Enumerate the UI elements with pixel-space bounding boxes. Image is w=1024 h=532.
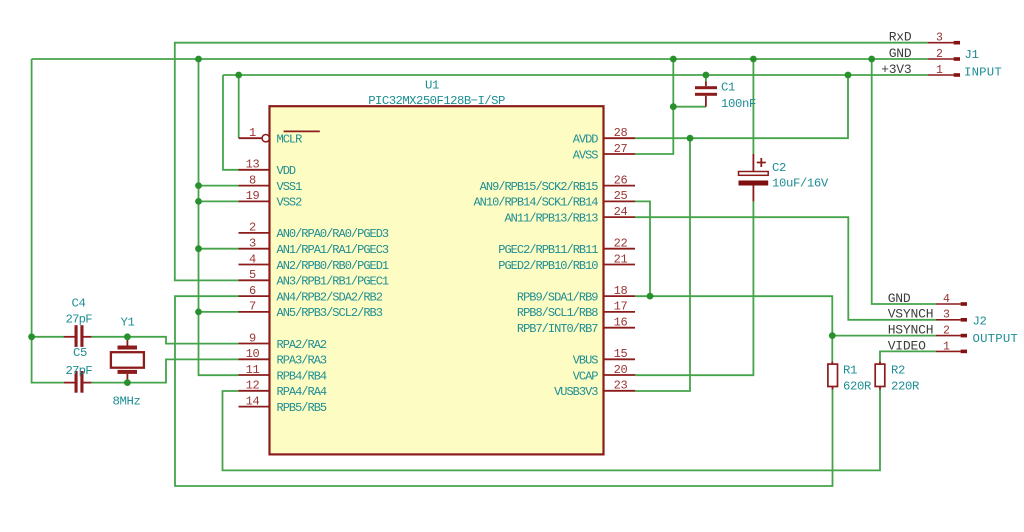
svg-text:6: 6	[249, 284, 256, 298]
connector J2 pin 2 endcap	[961, 334, 967, 338]
pin 8 line	[239, 185, 271, 187]
wire pin25 over to pin18 vertical	[635, 201, 650, 296]
pin 28 line	[603, 137, 635, 139]
svg-text:AN2/RPB0/RB0/PGED1: AN2/RPB0/RB0/PGED1	[277, 259, 389, 273]
crystal Y1 body	[111, 352, 144, 368]
MCLR overbar	[284, 130, 320, 132]
connector J1 pin 2 endcap	[954, 57, 960, 61]
svg-text:21: 21	[614, 252, 628, 266]
capacitor C5 right plate	[80, 371, 83, 393]
pin 17 line	[603, 311, 635, 313]
svg-text:VDD: VDD	[277, 164, 296, 178]
connector J2 pin 1 endcap	[961, 350, 967, 354]
pin 27 line	[603, 153, 635, 155]
pin 4 line	[239, 264, 271, 266]
junction crystal top node	[124, 333, 131, 340]
wire +3V3 drop to MCLR pin1	[238, 75, 240, 138]
pin 21 line	[603, 264, 635, 266]
connector J2 pin 2 line	[936, 335, 961, 337]
wire pin18 to R1 top / HSYNCH	[635, 296, 832, 335]
pin 18 line	[603, 295, 635, 297]
junction GND rail / J2 GND vertical	[868, 56, 875, 63]
junction GND rail / C2 top	[750, 56, 757, 63]
resistor R1 bottom stub	[832, 387, 834, 390]
junction +3V3 rail / C1 top	[703, 72, 710, 79]
pin 22 line	[603, 248, 635, 250]
svg-text:C2: C2	[772, 161, 786, 175]
connector J2 pin 4 endcap	[961, 302, 967, 306]
svg-text:8MHz: 8MHz	[113, 395, 141, 409]
connector J1 pin 1 endcap	[954, 73, 960, 77]
svg-text:5: 5	[249, 268, 256, 282]
svg-text:+3V3: +3V3	[881, 62, 911, 77]
svg-text:8: 8	[249, 173, 256, 187]
wire C5 row from caps through crystal bottom zigzag to pin 10	[91, 359, 239, 382]
svg-text:U1: U1	[425, 79, 439, 93]
svg-text:13: 13	[246, 158, 260, 172]
svg-text:AN3/RPB1/RB1/PGEC1: AN3/RPB1/RB1/PGEC1	[277, 275, 389, 289]
svg-text:11: 11	[246, 363, 260, 377]
junction GND drop / C4 left	[28, 333, 35, 340]
wire GND rail top	[32, 58, 928, 60]
pin 13 line	[239, 169, 271, 171]
svg-text:Y1: Y1	[121, 316, 135, 330]
svg-text:J1: J1	[965, 48, 979, 62]
capacitor C4 left plate	[75, 325, 78, 347]
svg-text:AN10/RPB14/SCK1/RB14: AN10/RPB14/SCK1/RB14	[473, 196, 598, 210]
svg-text:620R: 620R	[843, 380, 872, 394]
wire pin12 down-around to R2 bottom	[223, 389, 881, 470]
wire R1 top stub	[831, 336, 833, 362]
svg-text:22: 22	[614, 237, 628, 251]
svg-text:VSS1: VSS1	[277, 180, 303, 194]
svg-text:VSYNCH: VSYNCH	[888, 307, 934, 322]
svg-text:1: 1	[249, 126, 256, 140]
svg-text:100nF: 100nF	[721, 97, 756, 111]
wire AVDD pin28 to +3V3 drop at x848	[635, 75, 848, 138]
pin 11 line	[239, 374, 271, 376]
svg-text:PGED2/RPB10/RB10: PGED2/RPB10/RB10	[498, 259, 598, 273]
resistor R1 top stub	[831, 362, 833, 365]
svg-text:10: 10	[246, 347, 260, 361]
junction pin7	[195, 309, 202, 316]
wire C1 top stub to +3V3 rail	[705, 75, 707, 82]
wire pin7 to GND branch	[199, 311, 239, 313]
connector J2 pin 3 endcap	[961, 318, 967, 322]
svg-text:R1: R1	[843, 364, 857, 378]
connector J1 pin 1 line	[928, 74, 954, 76]
svg-text:27: 27	[614, 142, 628, 156]
svg-text:HSYNCH: HSYNCH	[888, 323, 934, 338]
capacitor C5 left lead	[64, 382, 75, 384]
connector J2 pin 3 line	[936, 319, 961, 321]
svg-text:VCAP: VCAP	[573, 369, 599, 383]
capacitor C4 right plate	[80, 325, 83, 347]
svg-text:3: 3	[936, 32, 943, 45]
wire pin24 to J2 VSYNCH	[635, 217, 936, 320]
wire VSS1 pin8	[199, 185, 239, 187]
svg-text:AN11/RPB13/RB13: AN11/RPB13/RB13	[504, 211, 598, 225]
junction crystal bottom node	[124, 379, 131, 386]
svg-text:4: 4	[249, 252, 256, 266]
connector J2 pin 4 line	[936, 303, 961, 305]
svg-text:PGEC2/RPB11/RB11: PGEC2/RPB11/RB11	[498, 243, 598, 257]
svg-text:7: 7	[249, 300, 256, 314]
pin 5 line	[239, 279, 271, 281]
svg-text:VSS2: VSS2	[277, 196, 303, 210]
crystal Y1 bottom lead	[126, 374, 128, 383]
junction VSS1 pin8	[195, 182, 202, 189]
pin 12 line	[239, 390, 271, 392]
capacitor C1 top plate	[695, 86, 717, 89]
svg-text:26: 26	[614, 173, 628, 187]
svg-text:AVSS: AVSS	[573, 148, 599, 162]
svg-text:24: 24	[614, 205, 628, 219]
pin 3 line	[239, 248, 271, 250]
pin 1 MCLR line with inverting bubble	[239, 137, 262, 139]
capacitor C2 bottom lead	[752, 186, 754, 202]
svg-text:J2: J2	[973, 315, 987, 329]
pin 26 line	[603, 185, 635, 187]
resistor R1 body	[828, 364, 838, 386]
resistor R2 top stub	[879, 362, 881, 365]
capacitor C4 left lead	[64, 336, 75, 338]
svg-text:10uF/16V: 10uF/16V	[772, 176, 829, 190]
svg-text:AN1/RPA1/RA1/PGEC3: AN1/RPA1/RA1/PGEC3	[277, 243, 389, 257]
wire VSS2 pin19	[199, 200, 239, 202]
svg-text:INPUT: INPUT	[964, 66, 1002, 80]
svg-text:27pF: 27pF	[66, 364, 93, 378]
svg-text:RPB7/INT0/RB7: RPB7/INT0/RB7	[517, 322, 598, 336]
svg-text:14: 14	[246, 394, 260, 408]
crystal Y1 top lead	[126, 337, 128, 346]
wire HSYNCH from R1 top junction to J2	[832, 335, 936, 337]
junction +3V3 rail / MCLR drop	[235, 72, 242, 79]
pin 20 line	[603, 374, 635, 376]
svg-text:RPB5/RB5: RPB5/RB5	[277, 401, 327, 415]
capacitor C5 right lead	[84, 382, 92, 384]
capacitor C2 top plate hollow	[739, 172, 769, 176]
svg-text:C1: C1	[721, 81, 735, 95]
wire VIDEO from R2 top to J2 pin1	[880, 351, 936, 361]
junction GND rail / C1-AVSS vertical	[670, 56, 677, 63]
capacitor C1 bottom lead	[705, 96, 707, 107]
pin 19 line	[239, 200, 271, 202]
svg-text:12: 12	[246, 379, 260, 393]
svg-text:220R: 220R	[891, 380, 920, 394]
svg-text:9: 9	[249, 331, 256, 345]
wire VUSB3V3 pin23 up to AVDD line	[635, 138, 690, 391]
pin 7 line	[239, 311, 271, 313]
svg-text:28: 28	[614, 126, 628, 140]
resistor R2 bottom stub	[879, 387, 881, 390]
svg-text:4: 4	[943, 293, 950, 306]
capacitor C4 right lead	[84, 336, 92, 338]
pin 25 line	[603, 200, 635, 202]
svg-text:PIC32MX250F128B−I/SP: PIC32MX250F128B−I/SP	[368, 94, 505, 108]
svg-text:3: 3	[943, 309, 950, 322]
svg-text:2: 2	[249, 221, 256, 235]
svg-text:AN4/RPB2/SDA2/RB2: AN4/RPB2/SDA2/RB2	[277, 290, 383, 304]
svg-text:RPB8/SCL1/RB8: RPB8/SCL1/RB8	[517, 306, 598, 320]
wire VCAP pin20 to C2 bottom	[635, 201, 753, 375]
wire C1 bottom horizontal	[673, 106, 706, 108]
wire C4 row from caps to crystal top and zigzag to pin 9	[91, 337, 239, 344]
svg-text:19: 19	[246, 189, 260, 203]
svg-text:2: 2	[943, 325, 950, 338]
svg-text:VBUS: VBUS	[573, 354, 599, 368]
svg-text:16: 16	[614, 316, 628, 330]
svg-text:OUTPUT: OUTPUT	[973, 332, 1018, 346]
svg-text:27pF: 27pF	[66, 313, 93, 327]
svg-text:VIDEO: VIDEO	[888, 338, 926, 353]
wire +3V3 rail top	[223, 74, 928, 76]
connector J1 pin 3 endcap	[954, 41, 960, 45]
wire GND branch vertical to VSS pins and pin3 pin7 pin11	[199, 59, 239, 375]
svg-text:RxD: RxD	[889, 30, 912, 45]
junction C1 bottom / GND vertical	[670, 103, 677, 110]
capacitor C1 bottom plate	[695, 93, 717, 96]
junction HSYNCH / R1 top	[829, 332, 836, 339]
pin 2 line	[239, 232, 271, 234]
svg-text:AN0/RPA0/RA0/PGED3: AN0/RPA0/RA0/PGED3	[277, 227, 389, 241]
svg-text:RPA4/RA4: RPA4/RA4	[277, 385, 327, 399]
svg-text:1: 1	[936, 64, 943, 77]
junction pin18 / pin25 vertical	[647, 293, 654, 300]
pin 15 line	[603, 358, 635, 360]
wire C4 left green segment	[32, 336, 65, 338]
wire pin3 to GND branch	[199, 248, 239, 250]
junction pin3	[195, 245, 202, 252]
svg-text:20: 20	[614, 363, 628, 377]
wire RxD rail from J1 pin3 down to IC pin5	[175, 43, 928, 281]
svg-text:RPB9/SDA1/RB9: RPB9/SDA1/RB9	[517, 290, 598, 304]
svg-text:RPA3/RA3: RPA3/RA3	[277, 354, 327, 368]
pin 14 line	[239, 406, 271, 408]
svg-text:2: 2	[936, 48, 943, 61]
pin 23 line	[603, 390, 635, 392]
wire AVSS pin27 to GND via C1 bottom vertical	[635, 59, 673, 154]
svg-text:1: 1	[943, 340, 950, 353]
junction +3V3 rail / AVDD drop	[845, 72, 852, 79]
wire pin6 down-around to R1 bottom	[175, 296, 833, 486]
capacitor C2 bottom plate solid	[739, 181, 769, 186]
svg-text:GND: GND	[888, 291, 911, 306]
svg-text:AN9/RPB15/SCK2/RB15: AN9/RPB15/SCK2/RB15	[480, 180, 599, 194]
svg-text:C4: C4	[72, 297, 86, 311]
svg-text:RPA2/RA2: RPA2/RA2	[277, 338, 327, 352]
pin 16 line	[603, 327, 635, 329]
connector J1 pin 2 line	[928, 58, 954, 60]
wire GND left drop to C4/C5	[32, 59, 64, 383]
svg-text:AVDD: AVDD	[573, 133, 599, 147]
svg-text:3: 3	[249, 237, 256, 251]
pin 9 line	[239, 343, 271, 345]
crystal Y1 bottom bar	[118, 370, 138, 374]
svg-text:GND: GND	[889, 46, 912, 61]
pin 6 line	[239, 295, 271, 297]
pin 24 line	[603, 216, 635, 218]
resistor R2 body	[875, 364, 885, 386]
svg-text:25: 25	[614, 189, 628, 203]
svg-text:AN5/RPB3/SCL2/RB3: AN5/RPB3/SCL2/RB3	[277, 306, 383, 320]
wire J2 GND from GND rail down to J2 pin4	[872, 59, 936, 304]
wire +3V3 drop to VDD pin13	[223, 75, 239, 170]
pin 10 line	[239, 358, 271, 360]
crystal Y1 top bar	[118, 346, 138, 350]
junction GND rail / VSS branch	[195, 56, 202, 63]
connector J2 pin 1 line	[936, 350, 961, 352]
svg-text:17: 17	[614, 300, 628, 314]
svg-text:MCLR: MCLR	[277, 133, 303, 147]
connector J1 pin 3 line	[928, 42, 954, 44]
junction VSS2 pin19	[195, 198, 202, 205]
svg-text:C5: C5	[73, 346, 87, 360]
IC U1 PIC32MX250F128B-I/SP body	[270, 106, 604, 454]
capacitor C2 top lead	[752, 154, 754, 172]
junction AVDD line / VUSB3V3 vertical	[687, 135, 694, 142]
svg-text:R2: R2	[891, 364, 905, 378]
svg-text:VUSB3V3: VUSB3V3	[554, 385, 598, 399]
capacitor C2 plus sign	[757, 158, 766, 167]
wire C2 top from GND rail	[752, 59, 754, 154]
capacitor C5 left plate	[75, 371, 78, 393]
svg-text:23: 23	[614, 379, 628, 393]
svg-text:RPB4/RB4: RPB4/RB4	[277, 369, 327, 383]
svg-text:15: 15	[614, 347, 628, 361]
svg-text:18: 18	[614, 284, 628, 298]
capacitor C1 top lead	[705, 82, 707, 87]
